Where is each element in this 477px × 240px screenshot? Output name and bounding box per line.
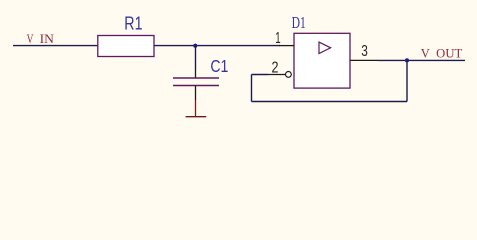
net label V IN [27,32,54,46]
op-amp D1 body [294,33,350,88]
D1 pin 1 [279,45,294,47]
svg-text:V: V [27,32,34,46]
feedback wire: left vertical up to pin 2 level [251,75,253,102]
net label V OUT [421,46,463,60]
capacitor C1 bottom pin [195,86,197,101]
svg-text:2: 2 [272,60,279,77]
svg-text:D1: D1 [292,13,306,32]
svg-text:3: 3 [361,43,368,60]
svg-text:C1: C1 [210,56,228,76]
svg-text:R1: R1 [124,12,142,33]
svg-text:V: V [421,46,430,60]
buffer triangle symbol inside D1 [319,42,331,53]
capacitor C1 top pin [195,69,197,78]
feedback wire: into D1 pin 2 [252,74,269,76]
wire: V IN input to resistor R1 [13,45,98,47]
svg-text:OUT: OUT [436,46,462,60]
D1 pin 3 [350,59,378,61]
svg-text:1: 1 [275,30,280,47]
resistor R1 body [98,36,154,57]
ground power port stem [195,100,197,116]
junction node B (output) [404,58,409,63]
sheet background [0,0,477,136]
wire: D1 pin 3 to output junction and V OUT [378,59,465,61]
svg-text:IN: IN [40,32,54,46]
ground bar [186,116,207,118]
D1 pin 2 inversion bubble [286,72,292,78]
junction node A (R1 / C1 / D1.1) [193,43,198,48]
feedback wire: output junction down [406,60,408,101]
feedback wire: bottom horizontal run [252,101,408,103]
capacitor C1 top plate [173,77,219,79]
wire: R1 to D1 pin 1 [154,45,280,47]
D1 pin 2 line [268,74,286,76]
wire: junction down to capacitor C1 [195,46,197,69]
capacitor C1 bottom plate [173,85,219,87]
